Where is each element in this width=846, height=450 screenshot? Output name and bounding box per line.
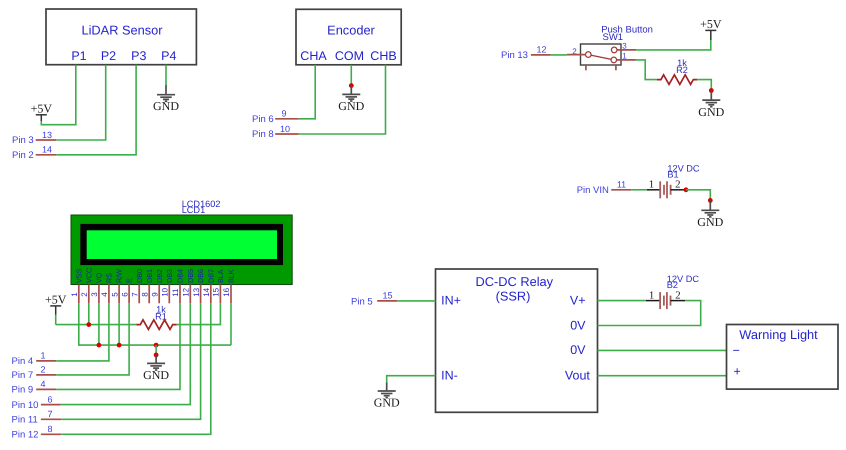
svg-text:Pin 3: Pin 3 (12, 135, 34, 146)
svg-text:DB7: DB7 (206, 269, 215, 283)
wire stub Pin 6 (275, 118, 299, 120)
wire Pin 4 to LCD (56, 303, 109, 361)
wire VCC drop (88, 303, 90, 324)
svg-text:CHA: CHA (300, 49, 327, 63)
svg-text:BLK: BLK (227, 269, 236, 283)
LCD module LCD1 labels (182, 199, 221, 215)
junction (VO GND) (97, 343, 102, 348)
wire Pin 9 to LCD (56, 303, 180, 389)
svg-text:SW1: SW1 (603, 32, 624, 43)
wire number 10 (280, 124, 290, 134)
svg-text:+5V: +5V (45, 293, 67, 307)
svg-text:Pin 13: Pin 13 (501, 50, 528, 61)
wire Pin5 to IN+ (397, 300, 435, 302)
svg-text:DB3: DB3 (165, 269, 174, 283)
LCD pin numbers 1-16 (70, 287, 231, 296)
node label Pin 13 (501, 50, 528, 61)
node label Pin 2 (12, 150, 34, 161)
ground (LCD) (143, 355, 169, 382)
node label Pin 3 (12, 135, 34, 146)
svg-text:Pin 2: Pin 2 (12, 150, 34, 161)
switch pin number 2 (572, 47, 577, 56)
wire number 9 (281, 109, 286, 119)
svg-text:11: 11 (171, 288, 180, 297)
svg-text:Pin 10: Pin 10 (12, 400, 39, 411)
svg-text:Pin VIN: Pin VIN (577, 185, 609, 196)
wire stub Pin 12 (41, 433, 61, 435)
ground (B1) (697, 200, 723, 228)
resistor R1 labels (155, 304, 167, 321)
svg-text:7: 7 (47, 409, 52, 419)
module Warning Light (727, 325, 839, 390)
svg-text:P3: P3 (131, 49, 146, 63)
junction (R2-GND) (709, 88, 714, 93)
svg-text:10: 10 (161, 287, 170, 296)
svg-text:GND: GND (143, 368, 169, 382)
svg-text:GND: GND (153, 99, 179, 113)
wire Pin8 to CHB (299, 65, 386, 134)
svg-text:3: 3 (90, 292, 99, 297)
svg-text:Encoder: Encoder (327, 22, 375, 37)
wire GND row (156, 344, 231, 346)
battery B2 pin number 1 (649, 289, 654, 301)
wire 0V to lamp - (598, 349, 727, 351)
svg-text:6: 6 (47, 394, 52, 404)
wire GND tap (155, 345, 157, 355)
ground (SSR) (374, 383, 400, 410)
node label Pin 7 (12, 370, 34, 381)
svg-text:+5V: +5V (31, 102, 53, 116)
lamp pin label plus (734, 365, 741, 379)
svg-text:LiDAR Sensor: LiDAR Sensor (81, 22, 163, 37)
wire stub Pin 4 (36, 360, 56, 362)
svg-text:COM: COM (335, 49, 364, 63)
wire number 12 (536, 45, 546, 55)
wire VSS drop (79, 303, 156, 345)
battery B1 labels (667, 164, 700, 180)
junction (VCC +5V) (86, 322, 91, 327)
wire Pin 11 to LCD (61, 303, 200, 419)
wire Pin 7 to LCD (56, 303, 129, 375)
svg-text:DB2: DB2 (155, 269, 164, 283)
svg-text:15: 15 (382, 291, 392, 301)
svg-text:DB0: DB0 (135, 269, 144, 283)
resistor R2 (657, 75, 697, 85)
SSR pin label IN- (441, 368, 458, 382)
svg-text:8: 8 (47, 424, 52, 434)
svg-text:IN-: IN- (441, 368, 458, 382)
junction (GND sym) (154, 353, 159, 358)
battery B1 pin number 1 (649, 179, 654, 191)
svg-text:VSS: VSS (74, 268, 83, 283)
svg-text:Pin 9: Pin 9 (12, 385, 34, 396)
ground (R2) (698, 91, 724, 119)
svg-text:Vout: Vout (565, 368, 591, 382)
wire number 1 (40, 351, 45, 361)
switch pin number 3 (622, 41, 627, 50)
node label Pin 12 (12, 430, 39, 441)
resistor R2 labels (676, 58, 688, 75)
wire number 13 (42, 130, 52, 140)
power +5V (LiDAR) (31, 102, 53, 121)
wire COM to GND (350, 65, 352, 86)
svg-text:Pin 11: Pin 11 (12, 415, 38, 426)
svg-text:4: 4 (100, 292, 109, 297)
svg-text:P2: P2 (101, 49, 116, 63)
wire number 11 (617, 180, 626, 190)
wire R/W drop (118, 303, 120, 345)
wire Pin2 to P3 (56, 65, 136, 155)
svg-text:IN+: IN+ (441, 294, 461, 308)
wire stub Pin 5 (377, 300, 397, 302)
wire B2 to 0V (598, 301, 701, 326)
junction (B1-GND) (708, 198, 713, 203)
svg-text:DB4: DB4 (176, 269, 185, 283)
power +5V (SW1) (700, 17, 722, 40)
svg-text:Warning Light: Warning Light (739, 327, 818, 342)
svg-text:Pin 8: Pin 8 (252, 129, 274, 140)
wire stub Pin VIN (611, 189, 631, 191)
wire number 4 (40, 379, 45, 389)
wire number 14 (42, 145, 52, 155)
svg-text:E: E (125, 278, 134, 283)
wire PinVIN to B1 (631, 189, 647, 191)
wire stub SW1 pin2 (567, 54, 586, 56)
module Encoder (296, 9, 401, 65)
svg-text:1: 1 (649, 289, 654, 301)
wire +5V down (55, 315, 57, 325)
svg-text:R2: R2 (676, 65, 688, 75)
svg-text:1: 1 (649, 179, 654, 191)
power +5V (LCD) (45, 293, 67, 315)
node label Pin 5 (351, 296, 373, 307)
SSR pin label 0V b (570, 343, 586, 357)
wire stub Pin 10 (41, 404, 61, 406)
svg-text:(SSR): (SSR) (496, 289, 531, 304)
svg-text:RS: RS (105, 273, 114, 283)
battery B2 (646, 292, 685, 309)
svg-text:9: 9 (150, 292, 159, 297)
wire VO drop (98, 303, 100, 345)
svg-text:9: 9 (281, 109, 286, 119)
svg-text:+: + (734, 365, 741, 379)
wire stub Pin 9 (36, 388, 56, 390)
wire SW1 pin1 to R2 (636, 60, 657, 80)
svg-text:DB5: DB5 (186, 269, 195, 283)
svg-text:+5V: +5V (700, 17, 722, 31)
junction (R/W GND) (117, 343, 122, 348)
wire B1 to GND (686, 190, 710, 201)
node label Pin 9 (12, 385, 34, 396)
svg-text:12: 12 (182, 287, 191, 296)
node label Pin 10 (12, 400, 39, 411)
wire number 15 (382, 291, 392, 301)
svg-text:2: 2 (675, 289, 680, 301)
SSR pin label Vout (565, 368, 591, 382)
wire stub Pin 13 (531, 54, 551, 56)
LiDAR pin label P3 (131, 49, 146, 63)
wire Pin13 to SW1 (551, 54, 567, 56)
wire R2 to GND (697, 80, 711, 91)
svg-text:2: 2 (675, 179, 680, 191)
node label Pin 4 (12, 356, 34, 367)
svg-text:GND: GND (374, 396, 400, 410)
LiDAR pin label P1 (71, 49, 86, 63)
svg-text:LCD1: LCD1 (182, 205, 206, 215)
svg-text:12: 12 (536, 45, 546, 55)
svg-text:16: 16 (222, 287, 231, 296)
node label Pin 8 (252, 129, 274, 140)
wire +5V row (56, 324, 137, 326)
svg-text:DC-DC Relay: DC-DC Relay (476, 274, 554, 289)
svg-text:13: 13 (42, 130, 52, 140)
Encoder pin label CHB (370, 49, 396, 63)
svg-text:DB1: DB1 (145, 269, 154, 283)
wire number 7 (47, 409, 52, 419)
LCD pin stubs (79, 285, 231, 304)
battery B1 (647, 181, 686, 198)
battery B2 pin number 2 (675, 289, 680, 301)
svg-text:Pin 4: Pin 4 (12, 356, 34, 367)
wire Pin 12 to LCD (61, 303, 211, 434)
junction (B1 pin2) (684, 187, 689, 192)
wire IN- to GND (387, 376, 436, 383)
svg-text:VO: VO (95, 272, 104, 283)
svg-text:8: 8 (140, 292, 149, 297)
svg-text:P4: P4 (161, 49, 176, 63)
switch SW1 body (581, 44, 622, 70)
wire P1 to +5V (41, 65, 76, 125)
svg-text:5: 5 (110, 292, 119, 297)
junction (GND tap) (154, 343, 159, 348)
svg-text:Pin 5: Pin 5 (351, 296, 373, 307)
svg-text:−: − (733, 344, 740, 358)
wire number 8 (47, 424, 52, 434)
svg-text:R/W: R/W (115, 269, 124, 283)
LCD pin names (74, 268, 235, 283)
Encoder pin label COM (335, 49, 364, 63)
ground (Encoder) (338, 86, 364, 113)
lamp pin label minus (733, 344, 740, 358)
svg-text:11: 11 (617, 180, 626, 190)
svg-text:0V: 0V (570, 343, 586, 357)
svg-text:DB6: DB6 (196, 269, 205, 283)
wire stub SW1 pin1 (617, 59, 636, 61)
wire Pin3 to P2 (56, 65, 105, 140)
svg-text:Pin 12: Pin 12 (12, 430, 39, 441)
svg-text:15: 15 (212, 287, 221, 296)
node label Pin 11 (12, 415, 38, 426)
svg-text:GND: GND (698, 105, 724, 119)
wire stub Pin 8 (275, 133, 299, 135)
wire SW1 pin3 to +5V (636, 40, 711, 50)
SSR pin label IN+ (441, 294, 461, 308)
wire BLK drop (230, 303, 232, 345)
wire V+ to B2 (598, 300, 647, 302)
svg-text:Pin 6: Pin 6 (252, 114, 274, 125)
svg-text:7: 7 (130, 292, 139, 297)
svg-text:V+: V+ (570, 294, 586, 308)
LCD module LCD1 body (71, 215, 292, 285)
resistor R1 (136, 320, 176, 330)
wire number 2 (40, 365, 45, 375)
svg-text:14: 14 (42, 145, 52, 155)
wire stub Pin 2 (36, 154, 57, 156)
SSR pin label 0V a (570, 318, 586, 332)
svg-text:2: 2 (80, 292, 89, 297)
LiDAR pin label P2 (101, 49, 116, 63)
switch SW1 labels (601, 25, 653, 43)
node label Pin 6 (252, 114, 274, 125)
svg-text:P1: P1 (71, 49, 86, 63)
module LiDAR Sensor (46, 9, 196, 65)
junction (COM) (349, 83, 354, 88)
svg-text:10: 10 (280, 124, 290, 134)
ground (LiDAR) (153, 85, 179, 113)
svg-text:13: 13 (192, 287, 201, 296)
svg-text:BLA: BLA (216, 269, 225, 283)
svg-text:14: 14 (202, 287, 211, 296)
svg-text:1: 1 (70, 292, 79, 297)
svg-text:VCC: VCC (84, 268, 93, 283)
wire number 6 (47, 394, 52, 404)
wire stub SW1 pin3 (617, 49, 636, 51)
wire P4 to GND (165, 65, 167, 85)
wire Pin6 to CHA (299, 65, 315, 119)
switch pin number 1 (622, 51, 627, 60)
svg-text:0V: 0V (570, 318, 586, 332)
wire stub Pin 3 (36, 139, 57, 141)
node label Pin VIN (577, 185, 609, 196)
battery B2 labels (667, 274, 700, 290)
svg-text:CHB: CHB (370, 49, 396, 63)
Encoder pin label CHA (300, 49, 327, 63)
SSR pin label V+ (570, 294, 586, 308)
svg-text:6: 6 (120, 292, 129, 297)
wire stub Pin 7 (36, 374, 56, 376)
wire Vout to lamp + (598, 375, 727, 377)
svg-text:2: 2 (40, 365, 45, 375)
svg-text:GND: GND (697, 215, 723, 229)
module DC-DC Relay U1 (436, 269, 598, 412)
LiDAR pin label P4 (161, 49, 176, 63)
battery B1 pin number 2 (675, 179, 680, 191)
wire R1 to BLA (177, 303, 221, 324)
wire stub Pin 11 (41, 418, 61, 420)
svg-text:4: 4 (40, 379, 45, 389)
svg-text:1: 1 (40, 351, 45, 361)
wire Pin 10 to LCD (61, 303, 191, 404)
svg-text:Pin 7: Pin 7 (12, 370, 34, 381)
svg-text:GND: GND (338, 99, 364, 113)
